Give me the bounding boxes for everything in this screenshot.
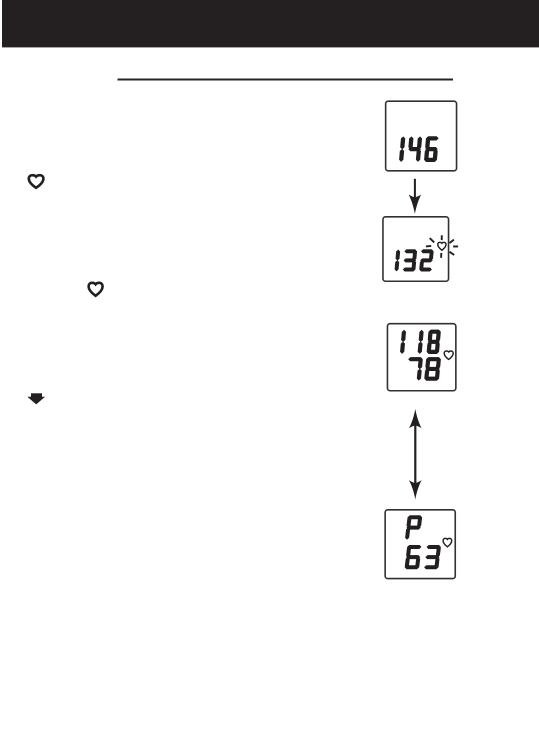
flashing heart symbol: [426, 235, 458, 257]
digits 78: [409, 357, 441, 380]
down arrow between box 1 and box 2: [409, 179, 422, 214]
header bar: [2, 0, 539, 47]
LCD box 1 (reading 146): [386, 101, 457, 171]
heart symbol in box 4: [443, 538, 452, 547]
digits 118: [400, 330, 440, 354]
digits 146: [399, 137, 438, 162]
LCD box 2 (reading 132, flashing heart): [383, 217, 449, 281]
heart symbol in box 3: [444, 351, 453, 359]
heart icon 2 (left margin): [89, 283, 103, 296]
solid down-arrow icon (left margin): [27, 393, 45, 404]
digits 63: [405, 545, 441, 569]
heart icon 1 (left margin): [29, 175, 44, 188]
double-headed arrow between box 3 and box 4: [409, 409, 422, 500]
horizontal rule: [118, 79, 454, 81]
letter P: [405, 516, 421, 540]
LCD box 3 (reading 118 / 78): [387, 324, 455, 391]
digits 132: [395, 250, 433, 272]
LCD box 4 (reading P / 63): [385, 510, 455, 579]
